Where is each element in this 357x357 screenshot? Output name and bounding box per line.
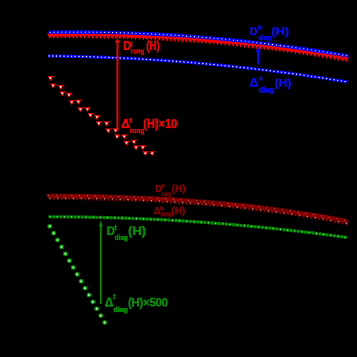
red vertical arrow line D/Delta rung <box>115 39 120 131</box>
green label Delta^t_diag(H)x500 <box>105 294 168 314</box>
svg-text:s: s <box>161 183 165 190</box>
svg-text:diag: diag <box>113 305 128 314</box>
svg-text:Δ: Δ <box>249 76 258 90</box>
blue label Delta^s_diag(H) <box>249 73 291 94</box>
green label D^t_diag(H) <box>107 224 146 241</box>
svg-text:diag: diag <box>258 35 271 43</box>
svg-text:diag: diag <box>259 85 275 94</box>
red label D^t_rung(H) <box>123 38 160 56</box>
svg-text:rung: rung <box>130 128 144 135</box>
red label Delta^t_rung(H)x10 <box>121 116 177 135</box>
curve Delta_diag(H)x500: steep green dotted data <box>47 224 107 325</box>
dark red label Delta^s_rung(H) <box>154 205 185 218</box>
green vertical arrow line D/Delta diag (t) <box>99 220 103 304</box>
svg-text:(H): (H) <box>128 224 146 237</box>
dark red label D^s_rung(H) <box>155 183 185 199</box>
svg-text:rung: rung <box>161 192 171 199</box>
svg-text:D: D <box>250 26 258 38</box>
svg-text:s: s <box>258 23 262 32</box>
blue label D^s_diag(H) <box>250 23 289 43</box>
svg-text:rung: rung <box>131 48 144 56</box>
curve D_rung lower panel: dark red square band <box>47 194 347 222</box>
curve D_rung top dataset: blue dots <box>48 30 348 58</box>
curve Delta_rung lower panel: dark red triangle row <box>48 196 349 225</box>
svg-text:(H): (H) <box>172 184 186 195</box>
svg-text:rung: rung <box>160 211 171 218</box>
svg-text:diag: diag <box>115 234 128 242</box>
curve Delta_rung(H)x10: steep red triangle data <box>47 76 155 156</box>
svg-text:(H): (H) <box>271 25 289 38</box>
svg-text:(H)×500: (H)×500 <box>128 297 168 309</box>
curve Delta_diag upper dataset: blue dotted curve 2 <box>47 54 347 83</box>
svg-text:(H): (H) <box>275 77 292 90</box>
curve D_rung top dataset: red down-triangle band <box>47 33 349 62</box>
svg-text:s: s <box>259 73 263 82</box>
curve Delta_diag lower panel: green dotted curve <box>48 215 347 239</box>
svg-text:(H)×10: (H)×10 <box>143 116 177 131</box>
svg-text:(H): (H) <box>146 40 160 54</box>
svg-text:(H): (H) <box>171 206 185 217</box>
blue vertical arrow line D/Delta diag <box>256 46 261 64</box>
